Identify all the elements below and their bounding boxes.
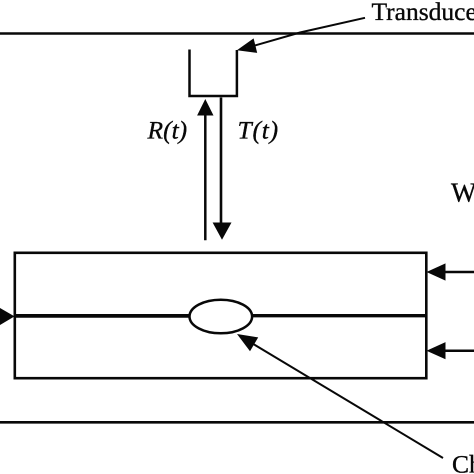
wire: bond line right segment [251, 314, 426, 317]
specimen rectangle (bonded joint) [15, 253, 427, 378]
svg-text:Transducer: Transducer [372, 0, 474, 26]
svg-text:Channel: Channel [452, 450, 474, 474]
defect ellipse [190, 300, 253, 334]
wire: leader line from Channel label to defect [250, 342, 443, 458]
transducer U-shaped holder [190, 50, 237, 97]
right arrow upper (pointing left) [444, 271, 474, 274]
arrow T(t) transmitted signal (downward) [220, 98, 223, 226]
wire: bond line left segment [15, 314, 191, 318]
svg-text:Water: Water [451, 178, 474, 208]
arrow R(t) reflected signal (upward) [204, 112, 207, 240]
arrowhead pointing to transducer [237, 38, 257, 53]
left incident arrowhead [0, 308, 15, 325]
wire: leader line from Transducer label [248, 18, 365, 48]
svg-text:R(t): R(t) [147, 116, 188, 145]
svg-text:T(t): T(t) [238, 116, 279, 145]
wire: top water surface line [0, 32, 474, 35]
wire: bottom boundary line [0, 421, 474, 424]
right arrow lower (pointing left) [444, 349, 474, 352]
arrowhead pointing to defect ellipse [237, 334, 258, 351]
